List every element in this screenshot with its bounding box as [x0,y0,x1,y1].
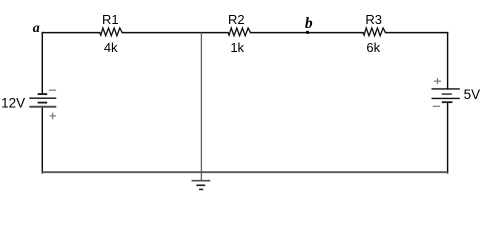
svg-text:R1: R1 [102,12,119,27]
svg-text:1k: 1k [230,40,244,55]
svg-text:4k: 4k [104,40,118,55]
svg-text:b: b [305,15,313,32]
svg-text:a: a [33,21,40,36]
svg-text:12V: 12V [1,95,25,110]
svg-text:6k: 6k [366,40,380,55]
svg-text:5V: 5V [464,87,481,102]
svg-text:R3: R3 [365,12,382,27]
svg-text:R2: R2 [228,12,245,27]
